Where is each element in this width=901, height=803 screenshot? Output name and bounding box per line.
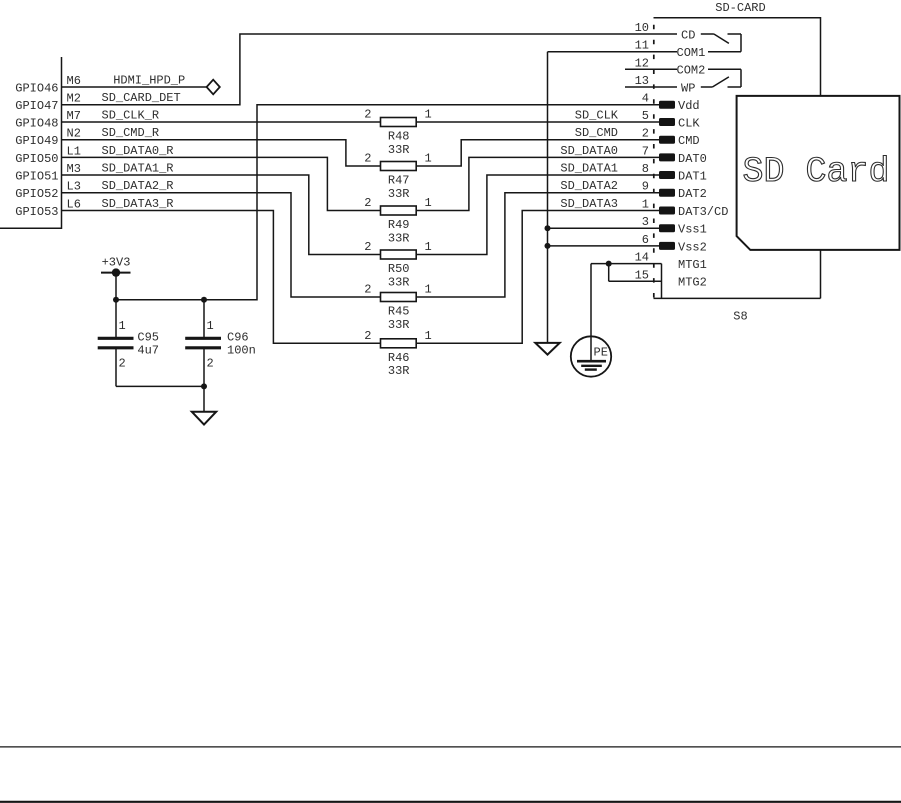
svg-text:SD_DATA2_R: SD_DATA2_R bbox=[102, 179, 174, 193]
svg-text:SD_DATA2: SD_DATA2 bbox=[560, 179, 618, 193]
svg-text:SD_CMD: SD_CMD bbox=[575, 126, 618, 140]
svg-text:COM2: COM2 bbox=[677, 64, 706, 78]
svg-text:CLK: CLK bbox=[678, 116, 700, 130]
svg-text:M7: M7 bbox=[67, 109, 81, 123]
pin pad 8 of S8 bbox=[659, 171, 675, 179]
svg-text:SD_DATA0: SD_DATA0 bbox=[560, 144, 618, 158]
wire Vss2 to pin bbox=[548, 245, 660, 247]
svg-text:SD_DATA3: SD_DATA3 bbox=[560, 197, 618, 211]
junction at C96 top bbox=[201, 297, 207, 303]
svg-text:S8: S8 bbox=[733, 310, 747, 324]
svg-text:33R: 33R bbox=[388, 364, 410, 378]
svg-text:HDMI_HPD_P: HDMI_HPD_P bbox=[113, 74, 185, 88]
wire net SD_DATA1 (R50 to DAT1 pin) bbox=[416, 175, 659, 255]
svg-text:DAT1: DAT1 bbox=[678, 169, 707, 183]
PE earth bar middle bbox=[581, 365, 602, 367]
svg-text:R49: R49 bbox=[388, 218, 410, 232]
wire net SD_CARD_DET bbox=[62, 34, 678, 105]
wire net SD_DATA3_R (L6 to R46) bbox=[62, 211, 381, 344]
junction at MTG1/MTG2 bbox=[606, 261, 612, 267]
svg-text:PE: PE bbox=[594, 346, 608, 360]
capacitor C96 bbox=[185, 338, 221, 348]
no-connect diamond on HDMI_HPD_P bbox=[207, 80, 220, 95]
wire MTG1 down to PE bbox=[590, 264, 592, 362]
wire net SD_CLK (R48 to CLK pin) bbox=[416, 121, 659, 123]
junction at C95 top bbox=[113, 297, 119, 303]
svg-text:4u7: 4u7 bbox=[137, 343, 159, 357]
junction at Vss2 bbox=[545, 243, 551, 249]
svg-text:33R: 33R bbox=[388, 275, 410, 289]
resistor R45 bbox=[381, 293, 417, 302]
svg-text:R47: R47 bbox=[388, 174, 410, 188]
capacitor C95 bbox=[98, 338, 134, 348]
svg-text:1: 1 bbox=[425, 329, 432, 343]
resistor R46 bbox=[381, 339, 417, 348]
svg-text:GPIO46: GPIO46 bbox=[15, 81, 58, 95]
svg-text:MTG2: MTG2 bbox=[678, 276, 707, 290]
svg-text:SD_CLK_R: SD_CLK_R bbox=[102, 109, 160, 123]
pin stub COM2 bbox=[625, 68, 677, 70]
svg-text:CMD: CMD bbox=[678, 134, 700, 148]
card-detect switch CD-COM1 bbox=[701, 34, 741, 52]
svg-text:33R: 33R bbox=[388, 231, 410, 245]
wire Vss1 to pin bbox=[548, 227, 660, 229]
svg-text:COM1: COM1 bbox=[677, 46, 706, 60]
sheet frame upper line bbox=[0, 746, 901, 748]
svg-text:2: 2 bbox=[364, 152, 371, 166]
svg-text:2: 2 bbox=[364, 329, 371, 343]
sheet frame bottom line bbox=[0, 801, 901, 803]
connector S8 outline bbox=[654, 18, 821, 299]
wire MTG pins to connector corner bbox=[661, 264, 663, 299]
svg-text:SD_CMD_R: SD_CMD_R bbox=[102, 126, 160, 140]
pin pad 2 of S8 bbox=[659, 136, 675, 144]
ground symbol on Vss net bbox=[535, 343, 559, 355]
wire MTG2 riser bbox=[608, 264, 610, 282]
resistor R47 bbox=[381, 162, 417, 171]
svg-text:3: 3 bbox=[642, 215, 649, 229]
svg-text:SD-CARD: SD-CARD bbox=[715, 1, 765, 15]
svg-text:9: 9 bbox=[642, 180, 649, 194]
svg-text:1: 1 bbox=[425, 283, 432, 297]
resistor R48 bbox=[381, 118, 417, 127]
svg-text:33R: 33R bbox=[388, 187, 410, 201]
svg-text:GPIO49: GPIO49 bbox=[15, 134, 58, 148]
svg-text:GPIO51: GPIO51 bbox=[15, 169, 58, 183]
svg-text:1: 1 bbox=[425, 108, 432, 122]
ground symbol under C96 bbox=[192, 412, 216, 425]
wire cap ground rail bbox=[116, 385, 204, 387]
svg-text:1: 1 bbox=[425, 196, 432, 210]
svg-text:SD_CLK: SD_CLK bbox=[575, 109, 619, 123]
svg-text:2: 2 bbox=[119, 357, 126, 371]
svg-text:1: 1 bbox=[642, 198, 649, 212]
pin pad 6 of S8 bbox=[659, 242, 675, 250]
svg-text:2: 2 bbox=[364, 196, 371, 210]
svg-text:GPIO53: GPIO53 bbox=[15, 205, 58, 219]
svg-text:11: 11 bbox=[635, 39, 649, 53]
svg-text:GPIO50: GPIO50 bbox=[15, 152, 58, 166]
svg-text:M6: M6 bbox=[67, 74, 81, 88]
junction at Vss1 bbox=[545, 225, 551, 231]
svg-text:SD_CARD_DET: SD_CARD_DET bbox=[102, 91, 181, 105]
pin pad 9 of S8 bbox=[659, 189, 675, 197]
svg-text:DAT3/CD: DAT3/CD bbox=[678, 205, 728, 219]
svg-text:13: 13 bbox=[635, 74, 649, 88]
svg-text:10: 10 bbox=[635, 21, 649, 35]
wire +3V3 rail to Vdd riser bbox=[116, 105, 659, 300]
svg-text:2: 2 bbox=[642, 127, 649, 141]
write-protect switch COM2-WP bbox=[701, 69, 741, 87]
resistor R50 bbox=[381, 250, 417, 259]
junction at C96 bottom bbox=[201, 383, 207, 389]
svg-text:L6: L6 bbox=[67, 198, 81, 212]
wire C95 top lead bbox=[115, 300, 117, 339]
protective earth symbol PE circle bbox=[571, 336, 611, 376]
wire net SD_CLK (left of R48) bbox=[62, 121, 381, 123]
svg-text:2: 2 bbox=[364, 108, 371, 122]
pin stub WP bbox=[625, 86, 677, 88]
svg-text:DAT0: DAT0 bbox=[678, 152, 707, 166]
wire rail to ground symbol bbox=[203, 386, 205, 411]
resistor R49 bbox=[381, 206, 417, 215]
svg-text:Vss1: Vss1 bbox=[678, 223, 707, 237]
wire net SD_DATA2 (R45 to DAT2 pin) bbox=[416, 193, 659, 297]
wire C96 top lead bbox=[203, 300, 205, 339]
svg-text:CD: CD bbox=[681, 28, 695, 42]
svg-text:SD_DATA0_R: SD_DATA0_R bbox=[102, 144, 174, 158]
svg-text:M3: M3 bbox=[67, 162, 81, 176]
svg-text:1: 1 bbox=[119, 319, 126, 333]
PE earth bar short bbox=[585, 368, 597, 370]
PE earth bar long bbox=[577, 360, 606, 363]
SD card body outline bbox=[737, 96, 900, 250]
svg-text:14: 14 bbox=[635, 251, 649, 265]
svg-text:5: 5 bbox=[642, 109, 649, 123]
wire net SD_DATA0 (R49 to DAT0 pin) bbox=[416, 157, 659, 210]
svg-text:N2: N2 bbox=[67, 127, 81, 141]
svg-text:+3V3: +3V3 bbox=[102, 256, 131, 270]
svg-text:1: 1 bbox=[425, 240, 432, 254]
wire net SD_DATA0_R (L1 to R49) bbox=[62, 157, 381, 210]
wire net HDMI_HPD_P bbox=[62, 86, 207, 88]
pin pad 7 of S8 bbox=[659, 153, 675, 161]
svg-text:2: 2 bbox=[207, 357, 214, 371]
wire net GND vertical (COM1/Vss1/Vss2) bbox=[547, 52, 549, 343]
svg-text:R46: R46 bbox=[388, 351, 410, 365]
wire C95 bottom lead bbox=[115, 348, 117, 387]
wire net SD_DATA1_R (M3 to R50) bbox=[62, 175, 381, 255]
pin pad 5 of S8 bbox=[659, 118, 675, 126]
pin pad 1 of S8 bbox=[659, 207, 675, 215]
svg-text:MTG1: MTG1 bbox=[678, 258, 707, 272]
wire MTG1 bbox=[591, 263, 662, 265]
svg-text:SD_DATA1: SD_DATA1 bbox=[560, 162, 618, 176]
wire net SD_DATA3 (R46 to DAT3 pin) bbox=[416, 211, 659, 344]
wire C96 bottom lead bbox=[203, 348, 205, 387]
svg-text:1: 1 bbox=[207, 319, 214, 333]
svg-text:GPIO48: GPIO48 bbox=[15, 116, 58, 130]
svg-text:M2: M2 bbox=[67, 92, 81, 106]
svg-text:33R: 33R bbox=[388, 143, 410, 157]
wire net SD_DATA2_R (L3 to R45) bbox=[62, 193, 381, 297]
IC pin header block edge (GPIO port) bbox=[0, 57, 62, 228]
svg-text:GPIO52: GPIO52 bbox=[15, 187, 58, 201]
wire MTG2 bbox=[609, 280, 662, 282]
svg-text:L3: L3 bbox=[67, 180, 81, 194]
svg-text:SD Card: SD Card bbox=[742, 152, 889, 192]
svg-text:2: 2 bbox=[364, 240, 371, 254]
svg-text:R48: R48 bbox=[388, 130, 410, 144]
svg-text:7: 7 bbox=[642, 144, 649, 158]
svg-text:33R: 33R bbox=[388, 318, 410, 332]
svg-text:6: 6 bbox=[642, 233, 649, 247]
svg-text:100n: 100n bbox=[227, 343, 256, 357]
svg-text:SD_DATA1_R: SD_DATA1_R bbox=[102, 162, 174, 176]
pin pad 3 of S8 bbox=[659, 224, 675, 232]
wire COM1 to pin bbox=[548, 51, 678, 53]
svg-text:L1: L1 bbox=[67, 144, 81, 158]
svg-text:SD_DATA3_R: SD_DATA3_R bbox=[102, 197, 174, 211]
svg-text:4: 4 bbox=[642, 92, 649, 106]
svg-text:GPIO47: GPIO47 bbox=[15, 99, 58, 113]
wire +3V3 to rail bbox=[115, 273, 117, 300]
svg-text:Vdd: Vdd bbox=[678, 99, 700, 113]
svg-text:12: 12 bbox=[635, 56, 649, 70]
connector S8 body dashed edge bbox=[653, 25, 655, 298]
svg-text:1: 1 bbox=[425, 152, 432, 166]
svg-text:R50: R50 bbox=[388, 262, 410, 276]
svg-text:Vss2: Vss2 bbox=[678, 240, 707, 254]
svg-text:2: 2 bbox=[364, 283, 371, 297]
power symbol +3V3 bbox=[101, 268, 131, 276]
svg-text:WP: WP bbox=[681, 81, 695, 95]
pin pad 4 of S8 bbox=[659, 101, 675, 109]
svg-text:DAT2: DAT2 bbox=[678, 187, 707, 201]
wire net SD_CMD (R47 to CMD pin) bbox=[416, 140, 659, 166]
wire net SD_CMD_R (N2 to R47) bbox=[62, 140, 381, 166]
svg-text:R45: R45 bbox=[388, 305, 410, 319]
svg-text:8: 8 bbox=[642, 162, 649, 176]
svg-text:15: 15 bbox=[635, 268, 649, 282]
